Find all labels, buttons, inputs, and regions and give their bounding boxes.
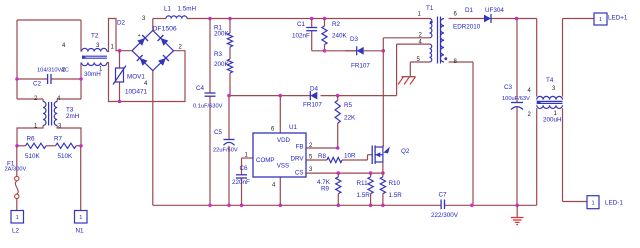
wire R6-R7 middle bbox=[46, 145, 56, 147]
node CS-R11 junction bbox=[369, 171, 373, 175]
svg-text:VDD: VDD bbox=[277, 137, 291, 144]
svg-text:FB: FB bbox=[296, 144, 304, 151]
node R5-top junction bbox=[336, 94, 340, 98]
wire ground rail primary bbox=[153, 204, 441, 206]
svg-text:EDR2010: EDR2010 bbox=[453, 24, 481, 31]
svg-text:Q2: Q2 bbox=[401, 148, 410, 155]
wire T4 pin2 down bbox=[536, 108, 538, 205]
wire U1 pin3 CS row bbox=[306, 172, 383, 174]
node CS-R10-source junction bbox=[381, 171, 385, 175]
resistor R9 bbox=[317, 177, 341, 194]
node rail-C3 junction bbox=[515, 204, 519, 208]
wire fuse bottom lead bbox=[16, 199, 18, 211]
wire C1 top lead bbox=[311, 19, 313, 28]
svg-text:R2: R2 bbox=[332, 21, 341, 28]
resistor R8 bbox=[318, 153, 356, 163]
svg-text:200K: 200K bbox=[214, 31, 230, 38]
varistor MOV1 bbox=[113, 51, 148, 102]
svg-text:C7: C7 bbox=[439, 192, 448, 199]
node fuse-R6 junction bbox=[15, 144, 19, 148]
node rail-pin4 junction bbox=[279, 204, 283, 208]
terminal LED-1 bbox=[587, 196, 623, 209]
svg-text:R8: R8 bbox=[318, 153, 327, 160]
diode D3 FR107 bbox=[345, 36, 370, 70]
svg-text:R10: R10 bbox=[389, 180, 401, 187]
wire R5 bottom lead bbox=[337, 123, 339, 148]
node rail-C5 junction bbox=[227, 204, 231, 208]
svg-text:R9: R9 bbox=[321, 186, 330, 193]
svg-text:VSS: VSS bbox=[277, 163, 289, 170]
wire T3 pin1 to fuse node bbox=[17, 126, 43, 146]
wire D3 cathode... anode to drain line bbox=[364, 50, 384, 52]
capacitor C5 bbox=[213, 129, 238, 154]
svg-text:R6: R6 bbox=[27, 136, 36, 143]
wire input box left edge bbox=[16, 20, 18, 99]
node bus-R1 junction bbox=[228, 17, 232, 21]
node VDD-R3 junction bbox=[227, 94, 231, 98]
resistor R7 bbox=[54, 136, 76, 161]
svg-text:222/300V: 222/300V bbox=[431, 212, 459, 219]
svg-text:R3: R3 bbox=[214, 51, 223, 58]
node rail-R10 junction bbox=[381, 204, 385, 208]
wire D1 cathode to T4 pin4 bbox=[491, 19, 537, 97]
svg-text:1: 1 bbox=[16, 215, 19, 221]
wire T3 pin3 to N1 node bbox=[57, 126, 81, 146]
svg-text:D3: D3 bbox=[350, 36, 359, 43]
node CS-R9 junction bbox=[337, 171, 341, 175]
resistor R11 bbox=[357, 177, 374, 199]
wire fuse top lead bbox=[16, 146, 18, 177]
wire bridge plus to L1 bbox=[153, 19, 166, 31]
ground earth secondary bbox=[511, 205, 524, 224]
wire T1 pin6 to D1 bbox=[449, 18, 484, 20]
capacitor C6 bbox=[232, 165, 250, 186]
svg-text:R11: R11 bbox=[357, 180, 369, 187]
svg-text:T1: T1 bbox=[426, 5, 434, 12]
svg-text:L1: L1 bbox=[164, 6, 172, 13]
ground primary (hatched) bbox=[398, 77, 416, 85]
node C2-right junction bbox=[79, 77, 83, 81]
terminal N1 bbox=[75, 211, 88, 235]
wire R2 leads bbox=[324, 19, 326, 51]
svg-text:510K: 510K bbox=[58, 153, 74, 160]
capacitor C4 bbox=[193, 85, 223, 110]
diode D1 UF304 bbox=[465, 7, 504, 23]
wire T4 pin3 to LED+ bbox=[563, 19, 594, 97]
svg-text:102nF: 102nF bbox=[292, 33, 310, 40]
diode D4 FR107 bbox=[303, 86, 322, 109]
resistor R5 bbox=[335, 100, 356, 123]
node rail-pin8 junction bbox=[470, 204, 474, 208]
svg-text:C1: C1 bbox=[297, 21, 306, 28]
transformer T1 bbox=[417, 5, 481, 65]
terminal L2 bbox=[11, 211, 24, 235]
terminal LED+1 bbox=[594, 13, 628, 25]
wire input box bottom edge to T3 pin2 bbox=[17, 99, 43, 102]
svg-text:LED-1: LED-1 bbox=[605, 200, 623, 207]
svg-text:N1: N1 bbox=[76, 228, 85, 235]
wire R8 to Q2 gate bbox=[342, 155, 372, 160]
svg-text:+: + bbox=[138, 33, 141, 39]
svg-text:DF1506: DF1506 bbox=[153, 26, 177, 33]
wire D4 anode to T1 pin4 bbox=[321, 44, 430, 96]
svg-text:10R: 10R bbox=[344, 153, 356, 160]
svg-text:C2: C2 bbox=[33, 81, 42, 88]
svg-text:D1: D1 bbox=[465, 7, 474, 14]
wire T2 pin4 column bbox=[80, 20, 82, 52]
svg-text:10D471: 10D471 bbox=[125, 89, 148, 96]
wire U1 pin2 FB row bbox=[306, 147, 338, 149]
svg-text:0.1uF/630V: 0.1uF/630V bbox=[193, 104, 223, 110]
wire R9 leads bbox=[337, 173, 339, 205]
wire T2 pin3 to bridge AC1 bbox=[107, 19, 132, 52]
svg-text:R7: R7 bbox=[54, 136, 63, 143]
svg-text:R5: R5 bbox=[344, 102, 353, 109]
node bus-R2 junction bbox=[323, 17, 327, 21]
capacitor C2 bbox=[33, 68, 69, 88]
svg-text:FR107: FR107 bbox=[351, 63, 370, 70]
wire clamp row C1R2 bottom to D3 bbox=[312, 31, 357, 51]
svg-text:1: 1 bbox=[591, 200, 594, 206]
node rail-C6 junction bbox=[240, 204, 244, 208]
svg-text:MOV1: MOV1 bbox=[127, 74, 145, 81]
node N1-R7 junction bbox=[79, 144, 83, 148]
inductor T4 coupled bbox=[528, 77, 563, 124]
svg-text:22uF/50V: 22uF/50V bbox=[213, 148, 238, 154]
resistor R3 bbox=[214, 51, 233, 73]
svg-text:U1: U1 bbox=[289, 124, 298, 131]
node rail-R11 junction bbox=[369, 204, 373, 208]
svg-text:510K: 510K bbox=[25, 153, 41, 160]
svg-text:LED+1: LED+1 bbox=[608, 15, 628, 22]
node bus-C4 junction bbox=[208, 17, 212, 21]
svg-text:C6: C6 bbox=[240, 165, 249, 172]
wire C2 row right bbox=[51, 78, 81, 80]
transistor Q2 MOSFET bbox=[372, 145, 410, 164]
svg-text:100uF/63V: 100uF/63V bbox=[502, 96, 530, 102]
fuse F1 bbox=[5, 161, 27, 199]
resistor R1 bbox=[214, 25, 233, 48]
wire bridge minus to ground rail bbox=[152, 71, 154, 206]
node VDD-pin6 junction bbox=[279, 94, 283, 98]
wire R1-R3 column bbox=[229, 19, 230, 96]
resistor R2 bbox=[322, 21, 348, 45]
wire R10 leads bbox=[382, 173, 384, 205]
bridge rectifier D2 DF1506 bbox=[111, 16, 183, 87]
transformer T3 bbox=[34, 96, 80, 130]
wire U1 pin4 VSS column bbox=[279, 177, 281, 205]
capacitor C1 bbox=[292, 21, 317, 40]
svg-text:2A/300V: 2A/300V bbox=[5, 167, 27, 173]
svg-text:T4: T4 bbox=[546, 77, 554, 84]
svg-text:FR107: FR107 bbox=[303, 102, 322, 109]
svg-text:COMP: COMP bbox=[256, 157, 275, 164]
inductor L1 bbox=[164, 6, 196, 19]
svg-text:C3: C3 bbox=[504, 84, 513, 91]
wire DC bus L1 to T1 pin1 bbox=[187, 18, 430, 20]
node MOV1 bottom junction bbox=[118, 100, 122, 104]
wire T2 pin2 to C2 junction and T3 pin4 bbox=[57, 63, 81, 102]
wire T1 pin5 to ground bbox=[410, 62, 429, 77]
node rail-R9 junction bbox=[337, 204, 341, 208]
svg-text:1.5R: 1.5R bbox=[389, 192, 403, 199]
svg-text:T2: T2 bbox=[91, 33, 99, 40]
wire ground rail secondary bbox=[445, 204, 537, 206]
svg-text:22K: 22K bbox=[344, 115, 356, 122]
node C2-left junction bbox=[15, 77, 19, 81]
svg-text:L2: L2 bbox=[12, 228, 20, 235]
wire T2 pin1 to bridge AC2 bbox=[107, 51, 185, 102]
wire T4 pin1 to LED- bbox=[563, 108, 588, 201]
wire C5 column bbox=[228, 96, 230, 206]
wire R6 left lead bbox=[17, 145, 26, 147]
svg-text:1: 1 bbox=[79, 215, 82, 221]
svg-text:200K: 200K bbox=[214, 61, 230, 68]
node bus-C1 junction bbox=[310, 17, 314, 21]
wire Q2 source lead bbox=[382, 162, 384, 173]
wire U1 pin1 COMP stub to C6 bbox=[242, 158, 254, 175]
svg-text:220nF: 220nF bbox=[232, 179, 250, 186]
svg-text:200uH: 200uH bbox=[543, 117, 562, 124]
resistor R6 bbox=[25, 136, 46, 161]
node R2-bottom junction bbox=[323, 49, 327, 53]
wire R7 right lead bbox=[76, 145, 81, 147]
svg-text:C5: C5 bbox=[214, 129, 223, 136]
svg-text:UF304: UF304 bbox=[485, 7, 504, 14]
wire C4 column bbox=[209, 19, 211, 206]
svg-text:D4: D4 bbox=[310, 86, 319, 93]
node rail-C4 junction bbox=[208, 204, 212, 208]
wire C2 row left bbox=[17, 78, 48, 80]
resistor R10 bbox=[380, 177, 402, 199]
wire VDD row bbox=[229, 95, 310, 97]
svg-text:C4: C4 bbox=[196, 85, 205, 92]
wire T1 pin8 to rail bbox=[449, 62, 473, 205]
svg-text:1.5R: 1.5R bbox=[357, 192, 371, 199]
transformer T2 bbox=[62, 33, 107, 78]
wire N1 column bbox=[80, 146, 82, 211]
node FB-R5 junction bbox=[336, 146, 340, 150]
node C3-top junction bbox=[515, 17, 519, 21]
op-amp U1 controller bbox=[245, 124, 314, 189]
svg-text:DRV: DRV bbox=[291, 156, 305, 163]
node D3-drain junction bbox=[382, 49, 386, 53]
wire U1 pin6 VDD column bbox=[279, 96, 281, 133]
wire C3 column bbox=[516, 19, 518, 206]
svg-text:1.5mH: 1.5mH bbox=[178, 6, 197, 13]
svg-text:2mH: 2mH bbox=[66, 113, 80, 120]
wire T1 pin2 to Q2 drain bbox=[383, 38, 429, 147]
wire R11 leads bbox=[370, 173, 372, 205]
wire R5 top lead bbox=[337, 96, 339, 101]
svg-text:240K: 240K bbox=[332, 33, 348, 40]
capacitor C3 bbox=[502, 84, 530, 110]
capacitor C7 bbox=[431, 192, 459, 220]
wire input box top edge bbox=[17, 19, 81, 21]
svg-text:D2: D2 bbox=[117, 20, 126, 27]
node MOV1 top junction bbox=[118, 49, 122, 53]
svg-text:CS: CS bbox=[295, 170, 304, 177]
wire C6 bottom lead bbox=[241, 178, 243, 205]
wire U1 pin5 DRV to R8 bbox=[306, 159, 327, 161]
svg-text:1: 1 bbox=[599, 17, 602, 23]
